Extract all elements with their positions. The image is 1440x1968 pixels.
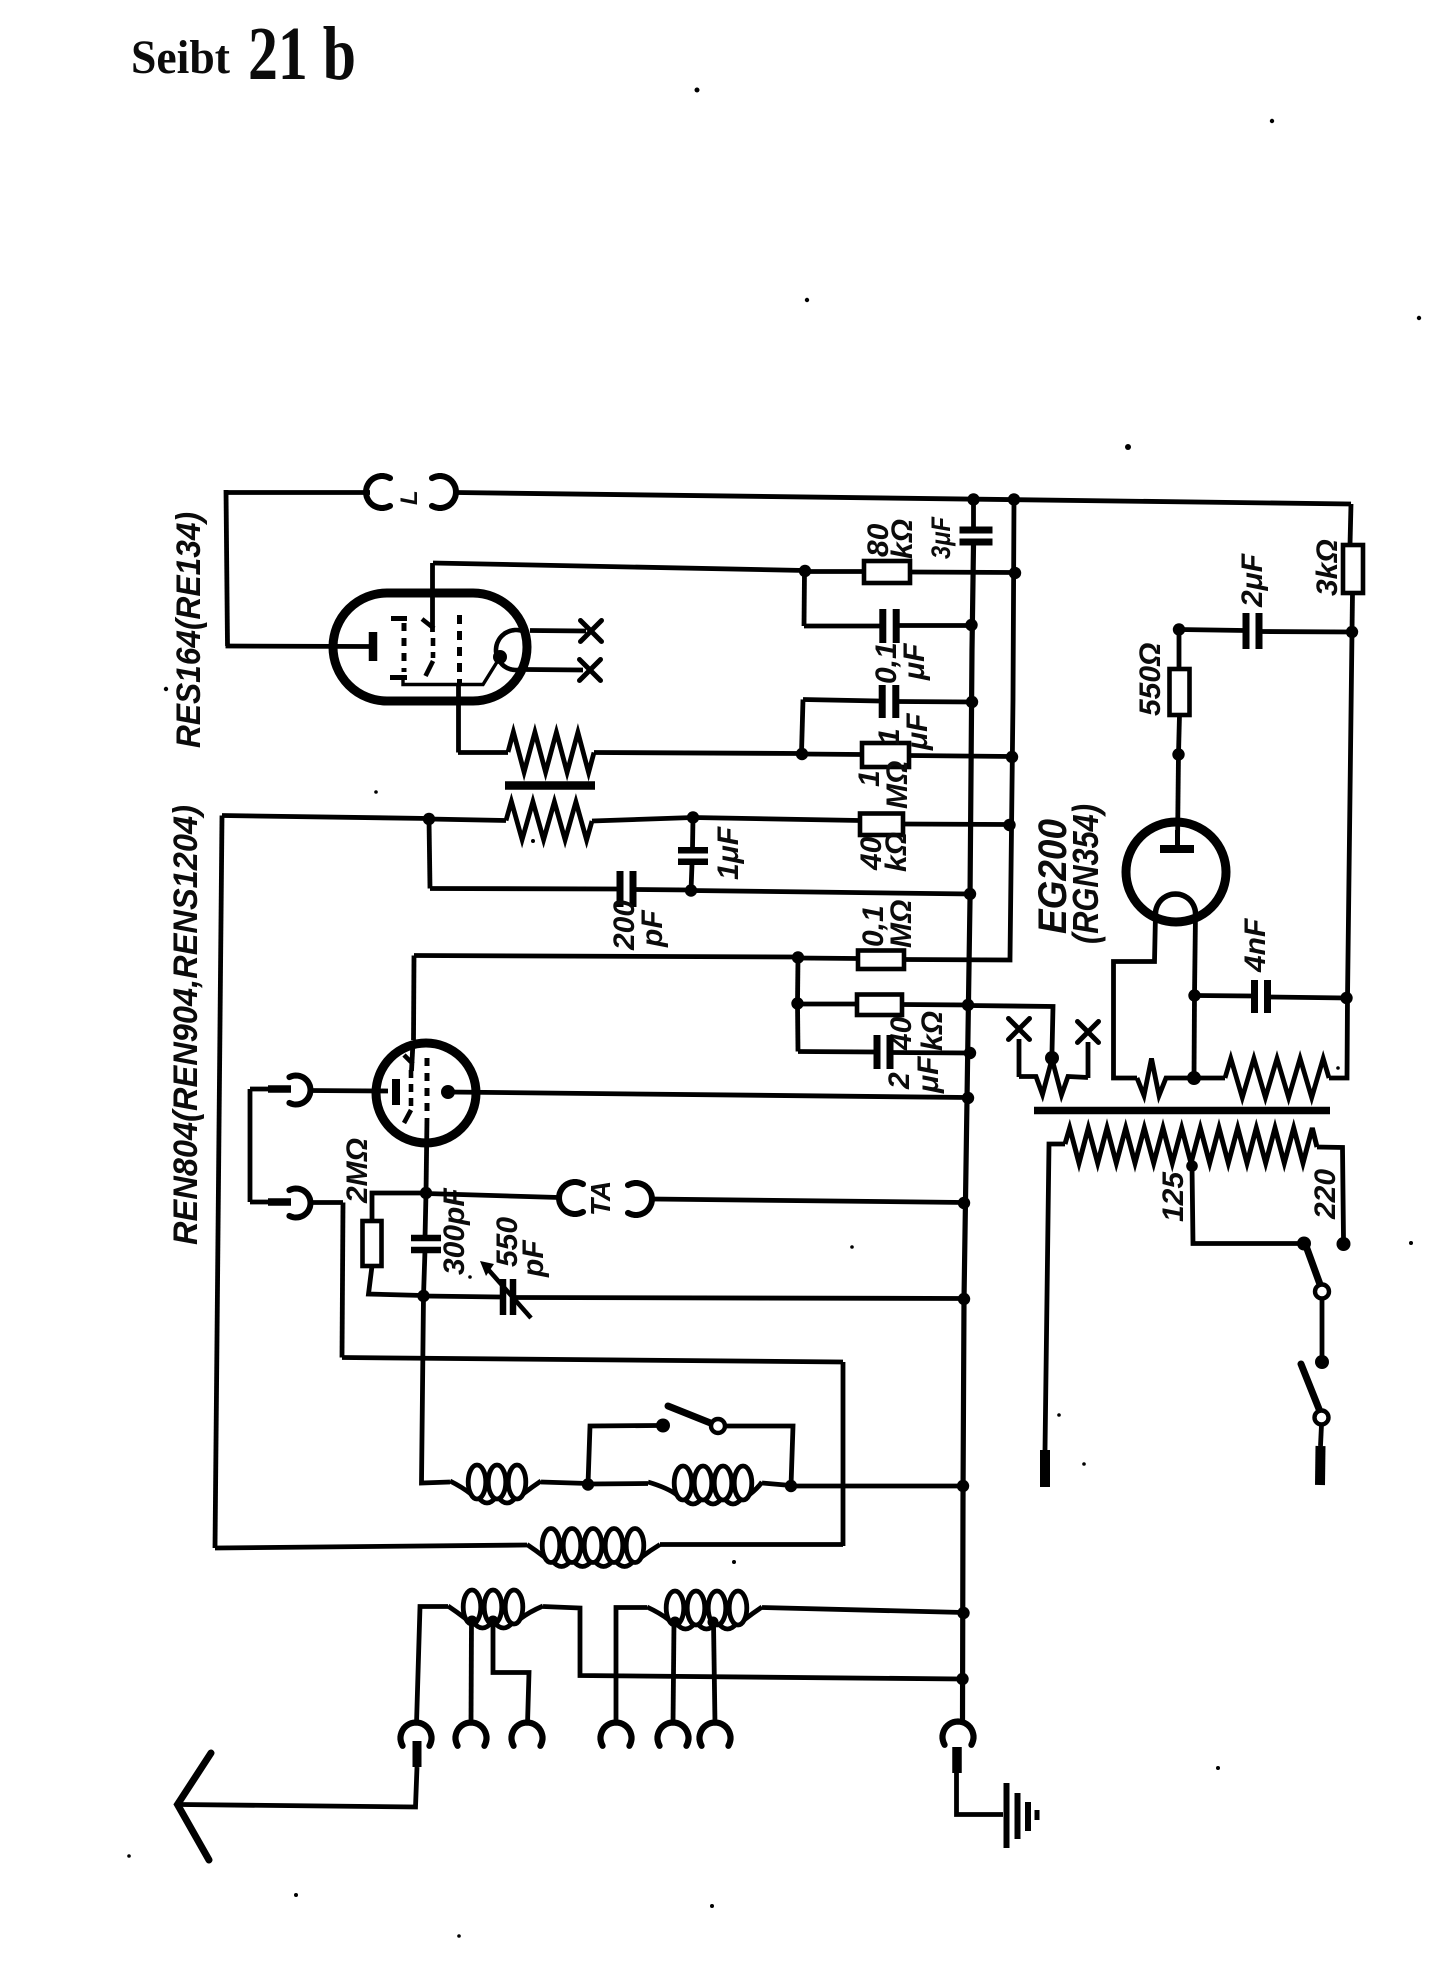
wire screen node to 80k bbox=[805, 569, 864, 574]
capacitor C1 3 uF in bus bbox=[960, 530, 993, 542]
junction node at 1M-ohm left bbox=[796, 748, 808, 760]
label C5 value 1uF bbox=[712, 826, 745, 880]
svg-text:2MΩ: 2MΩ bbox=[341, 1138, 374, 1204]
wire left rail top corner bbox=[222, 816, 429, 819]
tube V2 grid dashes bbox=[425, 1058, 430, 1118]
antenna arrow bbox=[178, 1753, 212, 1860]
wire 80k to second rail bbox=[910, 570, 1015, 575]
wire left rail long vertical bbox=[215, 816, 222, 1549]
wire primary right lead bbox=[1317, 1147, 1344, 1239]
junction tap 125 bbox=[1186, 1160, 1198, 1172]
junction left of det zigzag bbox=[423, 813, 435, 825]
capacitor C10 4 nF bbox=[1255, 980, 1268, 1013]
tube V2 screen lead interior bbox=[412, 1042, 414, 1071]
junction C2 bus bbox=[965, 619, 977, 631]
label C4 value 200 bbox=[608, 900, 641, 951]
socket A1 arc bbox=[401, 1723, 432, 1746]
wire 0,1M to second rail end bbox=[904, 959, 1010, 960]
wire antenna lead bbox=[181, 1767, 417, 1807]
svg-text:550Ω: 550Ω bbox=[1134, 643, 1167, 716]
tube V2 REN804 envelope bbox=[376, 1043, 476, 1143]
wire junction to 40k-2 bbox=[798, 1002, 858, 1007]
tube V1 screen hook bbox=[422, 619, 434, 629]
wire junction to 1M-ohm bbox=[802, 752, 862, 757]
wire EG anode lead bbox=[1178, 754, 1179, 845]
svg-text:kΩ: kΩ bbox=[916, 1011, 949, 1051]
capacitor C5 1 uF vertical bbox=[678, 850, 708, 862]
junction screen node bbox=[799, 565, 811, 577]
winding W2 HV zigzag bbox=[1225, 1059, 1329, 1098]
label C8 value 550 bbox=[491, 1217, 524, 1267]
svg-text:Seibt: Seibt bbox=[131, 31, 230, 84]
label tube V1 type bbox=[170, 512, 208, 748]
wire top corner to 3k bbox=[1350, 504, 1351, 545]
svg-text:3kΩ: 3kΩ bbox=[1311, 539, 1344, 596]
junction L4 bus bbox=[956, 1673, 968, 1685]
tap L4 b bbox=[488, 1616, 499, 1627]
label R7 value 3k-ohm bbox=[1311, 539, 1344, 596]
svg-text:MΩ: MΩ bbox=[881, 761, 914, 809]
wire top-left from L jack to corner bbox=[226, 490, 370, 495]
title 21 b bbox=[248, 12, 356, 96]
label R1 value 80 bbox=[862, 523, 895, 557]
jack G2 plug bar bbox=[268, 1198, 291, 1206]
label R3 value k-ohm bbox=[880, 832, 913, 872]
junction anode bus bbox=[962, 1092, 974, 1104]
jack G1 arc bbox=[289, 1076, 310, 1105]
junction row1 mid bbox=[582, 1478, 594, 1490]
junction switch1 fixed bbox=[1297, 1237, 1311, 1251]
junction 220 end bbox=[1337, 1237, 1351, 1251]
rheostat zigzag bbox=[1019, 1059, 1088, 1095]
junction 4nF right bbox=[1340, 992, 1352, 1004]
coil L1 row1 left bbox=[450, 1465, 541, 1503]
jack TA left arc bbox=[559, 1182, 583, 1214]
capacitor C4 200 pF bbox=[620, 871, 633, 907]
wire y1357 horizontal bbox=[342, 1358, 843, 1363]
junction filament-HV node bbox=[1187, 1071, 1201, 1085]
wire X to rheostat left bbox=[1017, 1039, 1022, 1077]
wire 1M node up corner bbox=[802, 700, 804, 754]
wire left rail to coil L3 bbox=[215, 1545, 527, 1548]
wire main bus vertical bbox=[971, 499, 976, 527]
tube V2 anode blob bbox=[441, 1085, 455, 1099]
wire corner to 200pF bbox=[430, 886, 618, 891]
switch S2 open contact ring bbox=[1315, 1285, 1329, 1299]
svg-text:300pF: 300pF bbox=[438, 1188, 471, 1275]
junction switch fixed contact bbox=[656, 1419, 670, 1433]
wire 40k-2 to bus bbox=[902, 1002, 969, 1007]
svg-text:1μF: 1μF bbox=[712, 826, 745, 880]
jack G1 plug bar bbox=[268, 1085, 291, 1093]
wire bus to rheostat top bbox=[968, 1006, 1053, 1053]
capacitor C3 1 uF bbox=[882, 685, 896, 718]
wire 4nF left bbox=[1195, 993, 1254, 998]
junction 550pF bus bbox=[958, 1293, 970, 1305]
wire corner to cap C3 bbox=[803, 700, 879, 702]
junction bus top bbox=[967, 493, 979, 505]
tube V1 screen bent dash bbox=[426, 661, 434, 676]
junction 3k bottom bbox=[1346, 626, 1358, 638]
wire junction to bus bbox=[691, 891, 971, 895]
wire 550ohm top lead bbox=[1177, 630, 1182, 670]
wire V1 filament to X lower bbox=[526, 667, 583, 672]
resistor R2 1 M-ohm body bbox=[862, 743, 909, 767]
wire 1M-ohm to second rail bbox=[909, 756, 1012, 757]
wire 2uF-2 to bus bbox=[892, 1050, 971, 1055]
label C2 value uF bbox=[898, 643, 931, 681]
svg-text:220: 220 bbox=[1309, 1169, 1342, 1220]
junction 2uF-2 bus bbox=[964, 1047, 976, 1059]
wire primary left lead bbox=[1045, 1144, 1065, 1450]
ground bar 2 bbox=[1015, 1793, 1021, 1839]
svg-text:REN804(REN904,RENS1204): REN804(REN904,RENS1204) bbox=[167, 805, 205, 1245]
mains plug prong right bbox=[1315, 1446, 1326, 1485]
label C10 value 4nF bbox=[1239, 918, 1272, 973]
wire jack G1 corner bbox=[250, 1087, 269, 1092]
coil L5 row3 right bbox=[647, 1591, 762, 1629]
wire L4 exit to bus bbox=[543, 1607, 962, 1680]
tube V3 anode stem bbox=[1175, 830, 1180, 849]
tube V1 filament blob bbox=[493, 650, 507, 664]
junction 1uF tap bbox=[687, 811, 699, 823]
label R3 value 40 bbox=[855, 836, 888, 871]
core bar interstage transformer bbox=[505, 781, 595, 790]
wire 200pF to junction bbox=[635, 887, 691, 892]
ground bar 3 bbox=[1025, 1802, 1031, 1831]
svg-text:kΩ: kΩ bbox=[886, 519, 919, 559]
wire tap 125 down bbox=[1192, 1166, 1300, 1244]
tube V2 screen hook bbox=[404, 1055, 413, 1064]
wire junction down to 200pF wire bbox=[429, 819, 430, 889]
tube V3 EG200 envelope bbox=[1126, 822, 1226, 922]
tube V2 cathode lead bbox=[308, 1088, 388, 1093]
label C1 value 3uF bbox=[926, 516, 956, 559]
X terminal lower bbox=[580, 660, 601, 681]
resistor R3 40 k-ohm body bbox=[860, 814, 903, 836]
tube V3 filament right leg bbox=[1195, 914, 1196, 995]
junction C3 bus bbox=[966, 696, 978, 708]
capacitor C6 2 uF bbox=[877, 1035, 890, 1069]
svg-text:μF: μF bbox=[898, 643, 931, 681]
junction grid bottom node bbox=[417, 1290, 429, 1302]
wire 550pF to bus bbox=[516, 1298, 965, 1299]
junction rheostat centre bbox=[1045, 1051, 1059, 1065]
label C2 value 0,1 bbox=[870, 642, 903, 684]
svg-text:L: L bbox=[396, 490, 423, 505]
wire junction to 0,1M body bbox=[798, 956, 858, 961]
label TA bbox=[585, 1181, 616, 1216]
wire REN screen top lead bbox=[411, 956, 416, 1041]
capacitor C7 300 pF bbox=[411, 1238, 441, 1250]
label L bbox=[396, 490, 423, 505]
wire L5 entry lead bbox=[616, 1608, 647, 1725]
jack L left arc bbox=[366, 476, 390, 508]
label C8 value pF bbox=[517, 1240, 550, 1278]
tube V1 filament loop bbox=[496, 630, 527, 670]
label tap 125 bbox=[1157, 1171, 1190, 1222]
wire right leg down bbox=[1192, 995, 1197, 1078]
wire grid node to TA jack bbox=[426, 1194, 559, 1198]
svg-text:kΩ: kΩ bbox=[880, 832, 913, 872]
svg-text:RES164(RE134): RES164(RE134) bbox=[170, 512, 208, 748]
svg-text:pF: pF bbox=[636, 910, 669, 948]
resistor grid zigzag R-a bbox=[508, 732, 594, 773]
junction on second rail bbox=[1006, 751, 1018, 763]
wire top from L jack to top-right corner bbox=[456, 493, 1351, 505]
label R1 value k-ohm bbox=[886, 519, 919, 559]
resistor R4 0,1 M-ohm body bbox=[858, 951, 904, 970]
title Seibt bbox=[131, 31, 230, 84]
wire second rail vertical bbox=[1010, 499, 1014, 959]
switch S1 open contact ring bbox=[711, 1419, 725, 1433]
resistor R8 550 ohm body bbox=[1170, 669, 1190, 715]
socket bus arc bbox=[943, 1722, 974, 1745]
coil L4 row3 left bbox=[448, 1590, 543, 1628]
wire V1 screen corner bbox=[433, 563, 805, 571]
tube V1 screen lead vertical bbox=[430, 563, 435, 632]
wire screen to 0,1M resistor bbox=[414, 956, 798, 958]
label C9 value 2uF bbox=[1236, 553, 1269, 608]
junction 40k second rail bbox=[1003, 819, 1015, 831]
wire V2 grid long vertical down bbox=[422, 1296, 451, 1483]
wire coilA to node bbox=[541, 1482, 588, 1484]
wire 40k-2 node down bbox=[795, 1004, 800, 1052]
label C4 value pF bbox=[636, 910, 669, 948]
junction 550ohm top bbox=[1173, 623, 1185, 635]
capacitor C8 550 pF variable bbox=[503, 1279, 513, 1315]
wire between switches bbox=[1320, 1299, 1325, 1357]
socket A6 arc bbox=[700, 1723, 731, 1746]
wire 2M bottom lead bbox=[369, 1266, 424, 1296]
tube V1 screen dashes bbox=[431, 638, 436, 658]
wire vertical x843 down bbox=[841, 1362, 846, 1546]
junction 4nF left bbox=[1188, 989, 1200, 1001]
junction switch2 fixed bbox=[1315, 1355, 1329, 1369]
label C3 value uF bbox=[901, 713, 934, 751]
label R6 value 2M-ohm bbox=[341, 1138, 374, 1204]
tube V1 internal lead bbox=[403, 662, 497, 685]
wire jack G2 vertical down bbox=[342, 1203, 343, 1358]
tube V2 screen dashes bbox=[409, 1070, 414, 1106]
tap L4 a bbox=[467, 1616, 478, 1627]
label R4 value 0,1 bbox=[857, 905, 890, 947]
jack G2 arc bbox=[289, 1189, 310, 1218]
wire 550ohm bottom lead bbox=[1179, 715, 1180, 754]
switch S3 open contact ring bbox=[1315, 1411, 1329, 1425]
switch S2 blade bbox=[1306, 1246, 1320, 1283]
resistor R1 80 k-ohm body bbox=[864, 561, 910, 583]
junction second rail top bbox=[1008, 493, 1020, 505]
wire RES164 cathode lead bbox=[226, 644, 371, 649]
wire det zigzag to 1uF tap bbox=[592, 818, 693, 822]
wire coilB to node bbox=[762, 1483, 791, 1486]
resistor R7 3 k-ohm body bbox=[1343, 545, 1363, 593]
svg-text:TA: TA bbox=[585, 1181, 616, 1216]
svg-text:μF: μF bbox=[901, 713, 934, 751]
tube V1 grid top hook bbox=[391, 616, 407, 621]
junction row1 right bbox=[785, 1480, 797, 1492]
tap L5 b bbox=[708, 1617, 719, 1628]
tube V1 grid bottom hook bbox=[390, 675, 407, 680]
wire switch left lead bbox=[588, 1426, 657, 1485]
junction TA bus bbox=[958, 1197, 970, 1209]
svg-text:MΩ: MΩ bbox=[885, 900, 918, 948]
label tube V3 type line2 bbox=[1065, 804, 1106, 944]
wire coil L3 to corner x843 bbox=[660, 1542, 843, 1547]
svg-text:125: 125 bbox=[1157, 1171, 1190, 1222]
label C7 value 300pF bbox=[438, 1188, 471, 1275]
X terminal fil right bbox=[1078, 1022, 1099, 1043]
wire 4nF right bbox=[1270, 997, 1347, 998]
tube V3 filament left leg bbox=[1114, 914, 1156, 1078]
winding W3 primary zigzag bbox=[1065, 1128, 1317, 1163]
wire junction to det zigzag bbox=[429, 819, 506, 821]
junction row1 bus bbox=[957, 1480, 969, 1492]
arrow of variable cap bbox=[480, 1261, 531, 1318]
socket A3 arc bbox=[512, 1723, 543, 1746]
wire node to coil L2 bbox=[588, 1481, 648, 1486]
ground bar 1 bbox=[1004, 1783, 1010, 1848]
wire jack G2 lead bbox=[308, 1200, 343, 1205]
mains plug prong left bbox=[1040, 1450, 1050, 1487]
wire grid node to 2M corner bbox=[372, 1193, 426, 1221]
label C6 value uF bbox=[912, 1056, 945, 1094]
tube V1 grid3 dashes bbox=[457, 615, 462, 683]
wire row1 to bus bbox=[791, 1484, 964, 1489]
wire 1uF vertical lead bbox=[690, 818, 695, 849]
label R4 value M-ohm bbox=[885, 900, 918, 948]
plug in bus socket bbox=[952, 1747, 962, 1773]
svg-text:pF: pF bbox=[517, 1240, 550, 1278]
jack L right arc bbox=[432, 476, 456, 508]
tube V1 RES164 envelope bbox=[333, 593, 527, 701]
label R5 value k-ohm bbox=[916, 1011, 949, 1051]
jack TA right arc bbox=[628, 1183, 652, 1215]
wire tap to socket A3 bbox=[493, 1621, 529, 1724]
label tap 220 bbox=[1309, 1169, 1342, 1220]
wire cap C3 to bus bbox=[898, 699, 973, 704]
wire jack G2 to corner bbox=[250, 1200, 269, 1205]
tap L5 a bbox=[670, 1617, 681, 1628]
tube V1 cathode bar bbox=[369, 632, 378, 661]
wire 0,1M node down bbox=[795, 958, 800, 1004]
plug in socket A1 bbox=[413, 1741, 422, 1767]
wire L4 entry lead bbox=[417, 1607, 449, 1725]
core bar mains transformer bbox=[1034, 1107, 1330, 1115]
wire tap to socket A6 bbox=[714, 1622, 716, 1724]
wire left vertical to RES164 cathode bbox=[226, 490, 228, 646]
socket A4 arc bbox=[601, 1723, 632, 1746]
svg-text:4nF: 4nF bbox=[1239, 918, 1272, 973]
wire X to rheostat right bbox=[1086, 1042, 1091, 1078]
svg-text:2μF: 2μF bbox=[1236, 553, 1269, 608]
wire zigzag to junction bbox=[594, 753, 802, 754]
junction EG anode node bbox=[1172, 748, 1184, 760]
wire 1uF to junction bbox=[691, 864, 692, 891]
switch S3 blade bbox=[1301, 1364, 1319, 1409]
coil L3 row2 bbox=[527, 1529, 660, 1567]
label R8 value 550ohm bbox=[1134, 643, 1167, 716]
wire tap to 40k resistor bbox=[693, 818, 860, 821]
ground tick 4 bbox=[1035, 1810, 1040, 1820]
label R2 value M-ohm bbox=[881, 761, 914, 809]
coil L2 row1 right bbox=[648, 1466, 762, 1504]
wire HV left lead bbox=[1194, 1076, 1225, 1081]
wire corner to 2uF-2 bbox=[798, 1049, 875, 1054]
wire 3k to junction bbox=[1350, 593, 1355, 632]
socket A5 arc bbox=[658, 1723, 689, 1746]
wire grid node to 300pF bbox=[425, 1193, 426, 1238]
wire main bus long vertical bbox=[963, 545, 974, 1723]
wire switch to prong bbox=[1321, 1425, 1322, 1447]
wire V1 grid3 lead down bbox=[456, 683, 461, 753]
label C3 value 1 bbox=[873, 728, 906, 745]
wire jacks vertical bbox=[248, 1089, 253, 1202]
junction at 0,1M left bbox=[792, 951, 804, 963]
capacitor C9 2 uF bbox=[1246, 613, 1259, 649]
label R5 value 40 bbox=[885, 1016, 918, 1051]
wire plug to earth bbox=[957, 1773, 1004, 1815]
wire tap to socket A5 bbox=[673, 1622, 674, 1724]
wire 300pF to junction bbox=[424, 1250, 426, 1296]
wire 2uF-1 node bbox=[1179, 630, 1245, 631]
tube V1 grid dashes bbox=[402, 623, 407, 672]
resistor det zigzag R-b bbox=[506, 802, 592, 841]
socket A2 arc bbox=[456, 1723, 487, 1746]
wire 2uF-1 to 3k node bbox=[1261, 629, 1353, 634]
wire L5 exit to bus bbox=[762, 1608, 964, 1613]
label C6 value 2 bbox=[883, 1072, 916, 1090]
wire TA jack to bus bbox=[652, 1199, 965, 1203]
label R2 value 1 bbox=[853, 770, 886, 787]
junction 40k-2 left bbox=[791, 997, 803, 1009]
winding W1 EG filament zigzag bbox=[1137, 1059, 1194, 1096]
svg-text:21 b: 21 b bbox=[248, 12, 356, 96]
wire 3k node long vertical bbox=[1329, 632, 1352, 1078]
wire switch right lead bbox=[725, 1426, 793, 1486]
junction 200pF bus bbox=[964, 888, 976, 900]
svg-text:μF: μF bbox=[912, 1056, 945, 1094]
tube V2 screen bent dash bbox=[404, 1110, 411, 1123]
wire cap C2 to bus bbox=[898, 623, 972, 628]
svg-text:(RGN354): (RGN354) bbox=[1065, 804, 1106, 944]
label tube V2 type bbox=[167, 805, 205, 1245]
wire V1 filament to X upper bbox=[530, 628, 586, 633]
tube V3 filament arc bbox=[1156, 894, 1196, 914]
wire grid bottom to 550pF bbox=[424, 1296, 501, 1297]
wire V2 anode to bus bbox=[448, 1092, 968, 1098]
label tube V3 type line1 bbox=[1031, 819, 1075, 934]
wire screen node down bbox=[802, 571, 807, 626]
X terminal upper bbox=[581, 621, 602, 642]
junction 40k-2 bus bbox=[962, 999, 974, 1011]
resistor R6 2 M-ohm body bbox=[363, 1221, 382, 1266]
junction 80k at second rail bbox=[1009, 567, 1021, 579]
svg-text:3μF: 3μF bbox=[926, 516, 956, 559]
wire 40k to second rail bbox=[903, 822, 1010, 827]
wire to grid resistor bbox=[458, 750, 508, 755]
tube V3 anode bar bbox=[1160, 845, 1194, 853]
junction L5 bus bbox=[957, 1607, 969, 1619]
X terminal fil left bbox=[1009, 1019, 1030, 1040]
resistor R5 40 k-ohm body bbox=[857, 995, 902, 1016]
wire tap to socket A2 bbox=[469, 1621, 474, 1724]
capacitor C2 0,1 uF bbox=[883, 609, 896, 643]
wire to cap C2 bbox=[804, 624, 881, 629]
switch S1 blade bbox=[668, 1406, 713, 1424]
wire V2 grid lead down bbox=[426, 1118, 427, 1193]
